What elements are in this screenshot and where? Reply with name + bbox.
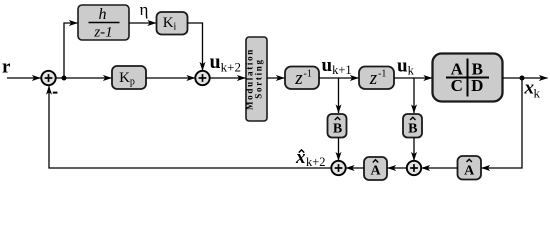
observer gain block A2 (A hat middle)	[364, 157, 387, 180]
svg-text:-1: -1	[378, 69, 386, 80]
wire S3 feedback to S1	[49, 86, 332, 168]
gain block Ki	[157, 12, 188, 35]
wire S2 to modulation block	[209, 77, 245, 79]
svg-text:k+2: k+2	[306, 155, 326, 169]
wire Kp to summer S2	[146, 77, 195, 79]
wire Z1 to Z2	[319, 77, 359, 79]
svg-text:k: k	[534, 86, 541, 101]
wire Z2 to plant	[394, 77, 432, 79]
summing junction S3	[331, 161, 345, 175]
wire A2 to summer S3	[346, 167, 364, 169]
svg-text:h: h	[99, 6, 107, 23]
wire integrator to Ki	[129, 22, 156, 24]
integrator block h/(z-1)	[78, 5, 129, 41]
wire node up to integrator block	[64, 23, 78, 78]
modulation sorting block	[245, 37, 268, 121]
summing junction S1	[41, 71, 55, 85]
observer gain block B2 (B hat right)	[403, 114, 422, 138]
svg-text:uk+2: uk+2	[210, 51, 241, 75]
wire Ki to summer S2	[188, 23, 203, 71]
svg-text:-1: -1	[304, 69, 312, 80]
svg-text:z: z	[369, 68, 378, 89]
svg-text:z-1: z-1	[93, 25, 112, 41]
summing junction S2	[195, 71, 209, 85]
svg-text:uk: uk	[397, 56, 415, 78]
wire r to summer S1	[7, 77, 41, 79]
svg-text:B: B	[333, 122, 342, 137]
svg-text:uk+1: uk+1	[322, 55, 352, 77]
minus sign at S1 feedback input	[53, 92, 58, 94]
node junction dot at x_k	[520, 76, 525, 81]
gain block Kp	[112, 66, 146, 89]
delay block Z1 z^-1	[285, 67, 319, 90]
svg-text:z: z	[294, 68, 303, 89]
svg-text:A: A	[370, 164, 381, 179]
wire B1 down to summer S3	[338, 138, 340, 161]
svg-text:r: r	[2, 57, 11, 78]
svg-text:Sorting: Sorting	[254, 58, 264, 98]
wire S4 to A2	[388, 167, 407, 169]
node junction dot after S1	[62, 76, 67, 81]
observer gain block A3 (A hat right)	[458, 156, 482, 180]
wire branch u_k+1 down to B1	[338, 78, 340, 113]
svg-text:D: D	[471, 76, 483, 95]
svg-text:C: C	[451, 76, 463, 95]
wire x_k feedback down to A3	[482, 78, 523, 168]
wire modulation block to Z1	[267, 77, 285, 79]
wire branch u_k down to B2	[413, 78, 415, 113]
observer gain block B1 (B hat left)	[328, 114, 347, 138]
summing junction S4	[407, 161, 421, 175]
wire A3 to summer S4	[422, 167, 458, 169]
plant block ABCD	[433, 54, 503, 102]
delay block Z2 z^-1	[359, 67, 394, 90]
wire S1 to Kp	[56, 77, 112, 79]
svg-text:B: B	[408, 122, 417, 137]
wire B2 down to summer S4	[413, 138, 415, 161]
wire plant to output	[503, 77, 548, 79]
svg-text:A: A	[464, 164, 475, 179]
svg-text:η: η	[140, 0, 149, 19]
